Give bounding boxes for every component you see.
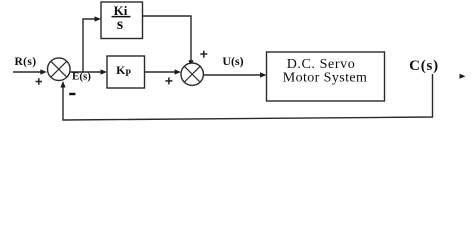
wire input arrow into summing junction S1 [13, 71, 42, 73]
svg-text:U(s): U(s) [222, 54, 243, 68]
plant block D.C. Servo Motor System [267, 52, 385, 101]
plus sign at S2 left input [165, 80, 172, 82]
svg-text:E(s): E(s) [72, 71, 91, 83]
proportional block Kp [107, 56, 145, 88]
summing junction S2 [181, 63, 203, 85]
output arrowhead [460, 74, 466, 79]
wire feedback path [63, 74, 433, 120]
minus sign at S1 feedback input [69, 93, 75, 95]
wire U(s) from S2 to plant block [203, 74, 261, 76]
wire from Ki/s to summing junction S2 [143, 16, 192, 61]
wire branch up to Ki/s block [83, 19, 96, 72]
svg-text:Motor System: Motor System [283, 71, 368, 86]
summing junction S1 [48, 58, 71, 81]
svg-text:R(s): R(s) [14, 56, 36, 68]
integrator block Ki/s [101, 2, 143, 39]
plus sign at S2 top input [200, 53, 207, 55]
plus sign at S1 input [36, 81, 43, 83]
wire E(s) from S1 to Kp block [70, 71, 101, 73]
svg-text:C(s): C(s) [409, 58, 439, 74]
svg-text:s: s [117, 16, 123, 33]
wire from Kp to summing junction S2 [145, 71, 176, 73]
